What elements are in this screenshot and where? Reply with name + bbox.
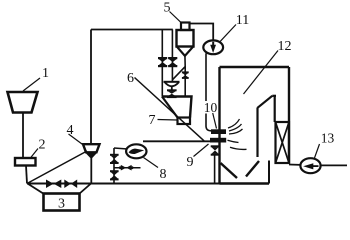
svg-text:8: 8 (160, 167, 167, 182)
top distribution pipe (91, 29, 173, 31)
tank 6 spout (178, 118, 191, 125)
leader line to cyclone 5 (170, 12, 181, 23)
label 3 (58, 197, 65, 212)
outlet pipe to blower 13 (289, 164, 301, 166)
heat exchanger X brace (276, 122, 290, 163)
collecting bowl (164, 81, 180, 83)
label 13 (321, 131, 335, 146)
valve V1 on bottom line (46, 180, 61, 189)
pipe blower 11 down to burner (205, 53, 207, 101)
furnace 12 left wall (218, 67, 220, 184)
svg-text:2: 2 (39, 138, 46, 153)
bottom main pipe (27, 183, 269, 185)
slant connector left of box 3 (28, 184, 45, 195)
leader line 10 to flange (213, 113, 217, 129)
label 9 (187, 155, 194, 170)
long diagonal leader/pipe from 6 to burner (135, 78, 205, 141)
leader line 9 to flange (194, 144, 209, 157)
label 8 (160, 167, 167, 182)
flame arc 3 (229, 129, 243, 134)
label 7 (149, 113, 156, 128)
slant connector right of box 3 (79, 184, 91, 195)
main conveying pipe to burner (143, 140, 211, 142)
gas pipe cyclone top to blower 11 (190, 24, 214, 41)
feed tank 6 (162, 97, 192, 118)
heat exchanger box (276, 122, 290, 163)
leader line to feeder 2 (30, 149, 38, 159)
flame arc 2 (229, 124, 242, 131)
svg-text:3: 3 (58, 197, 65, 212)
label 5 (164, 1, 171, 16)
label 10 (204, 100, 218, 115)
leader line to blower 8 (144, 158, 159, 168)
svg-text:12: 12 (278, 39, 292, 54)
label 2 (39, 138, 46, 153)
valve A (upper hourglass) (110, 154, 119, 164)
valve on right vertical (168, 57, 177, 67)
leader line 7 to spout (158, 119, 178, 122)
valve on left vertical (158, 57, 167, 67)
flame arc 5 (230, 147, 247, 149)
svg-text:7: 7 (149, 113, 156, 128)
blower 13 arrow (solid) (303, 163, 318, 169)
cyclone 5 body (177, 30, 194, 47)
leader line to blower 13 (314, 144, 319, 159)
label 4 (67, 123, 74, 138)
vertical feed pipe to hopper 4 (90, 30, 92, 145)
throat cap (272, 95, 276, 97)
burner lower flange (solid) (210, 138, 226, 143)
pipe feeder2 down to junction (26, 166, 27, 184)
hearth slope right (246, 161, 259, 177)
valve B (lower hourglass) (110, 170, 119, 180)
furnace floor (thicker overlay) (220, 182, 270, 185)
furnace 12 top wall (220, 66, 290, 68)
pipe hopper1 to feeder2 (22, 113, 24, 158)
box 3 (44, 194, 80, 211)
cyclone 5 cap (181, 23, 190, 31)
flame arc 4 (228, 140, 239, 142)
svg-text:1: 1 (42, 66, 49, 81)
blower 11 (203, 40, 223, 54)
exit pipe right (320, 164, 347, 166)
blower 8 rotor (solid) (129, 149, 145, 154)
elbow to blower 8 (114, 148, 128, 149)
feeder 2 (15, 158, 36, 166)
pipe hopper4 down to junction (90, 158, 92, 184)
cyclone discharge pipe (172, 55, 185, 80)
svg-text:13: 13 (321, 131, 335, 146)
diagonal pipe junction to hopper 4 (27, 151, 87, 184)
svg-text:5: 5 (164, 1, 171, 16)
burner upper flange (solid) (211, 129, 226, 134)
vertical pipe with valve (left of cyclone) (161, 30, 163, 97)
valve on direct drop (182, 71, 189, 79)
burner valve (211, 145, 220, 155)
label 12 (278, 39, 292, 54)
inner shaft right edge (stem) (274, 96, 276, 122)
svg-text:6: 6 (127, 71, 134, 86)
furnace 12 right wall (288, 67, 290, 164)
label 1 (42, 66, 49, 81)
nitrogen valve line vertical (113, 148, 115, 184)
leader line 12 into furnace (244, 51, 279, 95)
leader line to hopper 4 (69, 134, 85, 146)
svg-text:9: 9 (187, 155, 194, 170)
hopper 4 (83, 144, 100, 152)
branch pipe with bowtie valve (114, 167, 141, 169)
vertical pipe with valve (right) (171, 30, 173, 82)
cyclone direct drop pipe (184, 67, 186, 97)
leader line to blower 11 (220, 25, 236, 42)
blower 13 (300, 158, 320, 173)
label 11 (236, 13, 249, 28)
valve under bowl (167, 89, 177, 98)
svg-text:10: 10 (204, 100, 218, 115)
flame arc 1 (228, 119, 240, 128)
blower 11 arrow (solid) (210, 42, 216, 53)
cyclone 5 cone (177, 47, 193, 56)
svg-text:11: 11 (236, 13, 249, 28)
label 6 (127, 71, 134, 86)
furnace throat diagonal (258, 96, 273, 108)
furnace inner shaft left edge (256, 108, 258, 158)
hearth slope left (221, 163, 238, 178)
leader line to hopper 1 (23, 78, 40, 91)
downcomer wall (268, 161, 270, 184)
pipe burner valve to bottom line (214, 155, 216, 183)
valve V2 on bottom line (64, 180, 77, 189)
hopper 4 cone (solid) (85, 153, 97, 159)
blower 8 (126, 144, 146, 158)
hopper 1 (8, 92, 38, 113)
